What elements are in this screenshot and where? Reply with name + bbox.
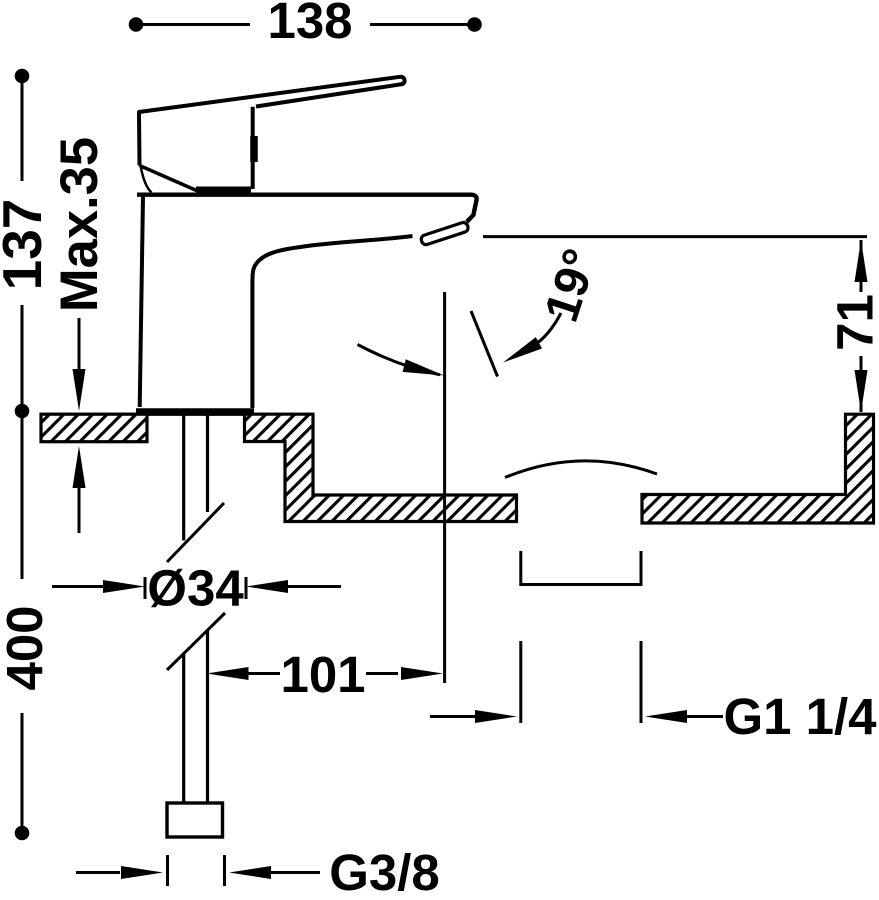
dimension G3/8: left arrowhead [121, 866, 163, 879]
dimension O34: right tick [245, 577, 248, 599]
faucet lever outline [139, 77, 405, 166]
dimension Max.35: up arrowhead below counter [73, 446, 86, 488]
dimension O34: right arrow line [288, 585, 341, 588]
dimension 71: up arrowhead [855, 240, 868, 282]
foot block [167, 803, 223, 837]
shaft left line lower [182, 653, 185, 804]
dimension 138 top: right dot [467, 17, 482, 32]
rotation arc arrow [358, 345, 441, 375]
basin deck and wall hatched piece [245, 414, 517, 521]
aerator [420, 221, 469, 245]
rotation arc arrowhead [403, 359, 444, 375]
svg-text:Ø34: Ø34 [147, 560, 244, 617]
svg-text:Max.35: Max.35 [50, 137, 109, 312]
dimension 137 left: top dot [15, 69, 30, 84]
drain U [521, 551, 641, 585]
spout centerline [443, 292, 446, 683]
spout underside and body right edge [252, 236, 412, 408]
dimension O34: right arrowhead [246, 580, 288, 593]
dimension 101: right arrowhead [401, 667, 443, 680]
tilted lever line 19 deg [471, 311, 498, 377]
lever front edge thick detail [250, 136, 258, 162]
basin bottom arc [505, 461, 657, 478]
svg-text:G1 1/4: G1 1/4 [723, 688, 877, 745]
dimension Max.35: up arrow line [78, 486, 81, 533]
dimension 71: lower line [860, 356, 863, 412]
dimension G1 1/4: left arrowhead [475, 710, 517, 723]
spout outlet reference line for 71 [483, 235, 867, 238]
dimension 101: left line [248, 672, 280, 675]
dimension Max.35: down arrowhead [73, 369, 86, 411]
dimension Max.35: down arrow line [78, 318, 81, 372]
svg-text:400: 400 [0, 605, 53, 690]
gap bar between lever and body [196, 187, 251, 194]
right basin wall hatched piece [642, 414, 874, 523]
lever front edge [251, 107, 255, 189]
dimension 71: down arrowhead [855, 370, 868, 412]
drain lower left line [519, 641, 522, 723]
dimension G3/8: right line [271, 871, 320, 874]
body left edge [140, 197, 143, 408]
dimension G3/8: right arrowhead [229, 866, 271, 879]
dimension 101: right line [366, 672, 398, 675]
dimension 137 left: lower line [21, 305, 24, 404]
19 deg arrowhead [503, 337, 542, 362]
dimension 71: up arrow line [860, 240, 863, 292]
shaft break diagonal upper [167, 503, 224, 562]
svg-text:71: 71 [827, 294, 879, 351]
dimension 138 top: left line [136, 23, 250, 26]
dimension G3/8: left tick [166, 855, 169, 886]
svg-text:137: 137 [0, 199, 53, 291]
drain lower right line [640, 641, 643, 723]
dimension O34: left arrow line [52, 585, 106, 588]
dimension 137 left: upper line [21, 83, 24, 181]
faucet base plate [136, 408, 254, 416]
dimension 101: left arrowhead [207, 667, 249, 680]
dimension 138 top: left dot [129, 17, 144, 32]
svg-text:138: 138 [267, 0, 352, 49]
svg-text:101: 101 [280, 646, 365, 703]
dimension O34: left tick [144, 577, 147, 599]
dimension G1 1/4: right arrowhead [645, 710, 687, 723]
dimension 137/400 shared dot [15, 404, 30, 419]
countertop top line [41, 413, 313, 416]
shaft right line lower [206, 630, 209, 804]
lever cap arc [141, 168, 152, 193]
dimension O34: left arrowhead [103, 580, 145, 593]
countertop left hatched block [41, 414, 147, 442]
dimension G3/8: left line [76, 871, 120, 874]
shaft right line upper [206, 412, 209, 512]
dimension 400 left: bottom dot [15, 826, 30, 841]
dimension G1 1/4: right line [687, 715, 723, 718]
shaft left line upper [182, 412, 185, 541]
svg-text:G3/8: G3/8 [329, 844, 440, 900]
body top edge with right corner [137, 195, 477, 222]
dimension G1 1/4: left line [430, 715, 476, 718]
dimension 400 left: upper line [21, 418, 24, 579]
dimension 400 left: lower line [21, 713, 24, 826]
dimension 138 top: right line [370, 23, 475, 26]
19 deg arc arrow [533, 313, 561, 346]
lever bottom diagonal [140, 166, 197, 191]
shaft break diagonal lower [167, 613, 225, 670]
dimension G3/8: right tick [223, 855, 226, 886]
